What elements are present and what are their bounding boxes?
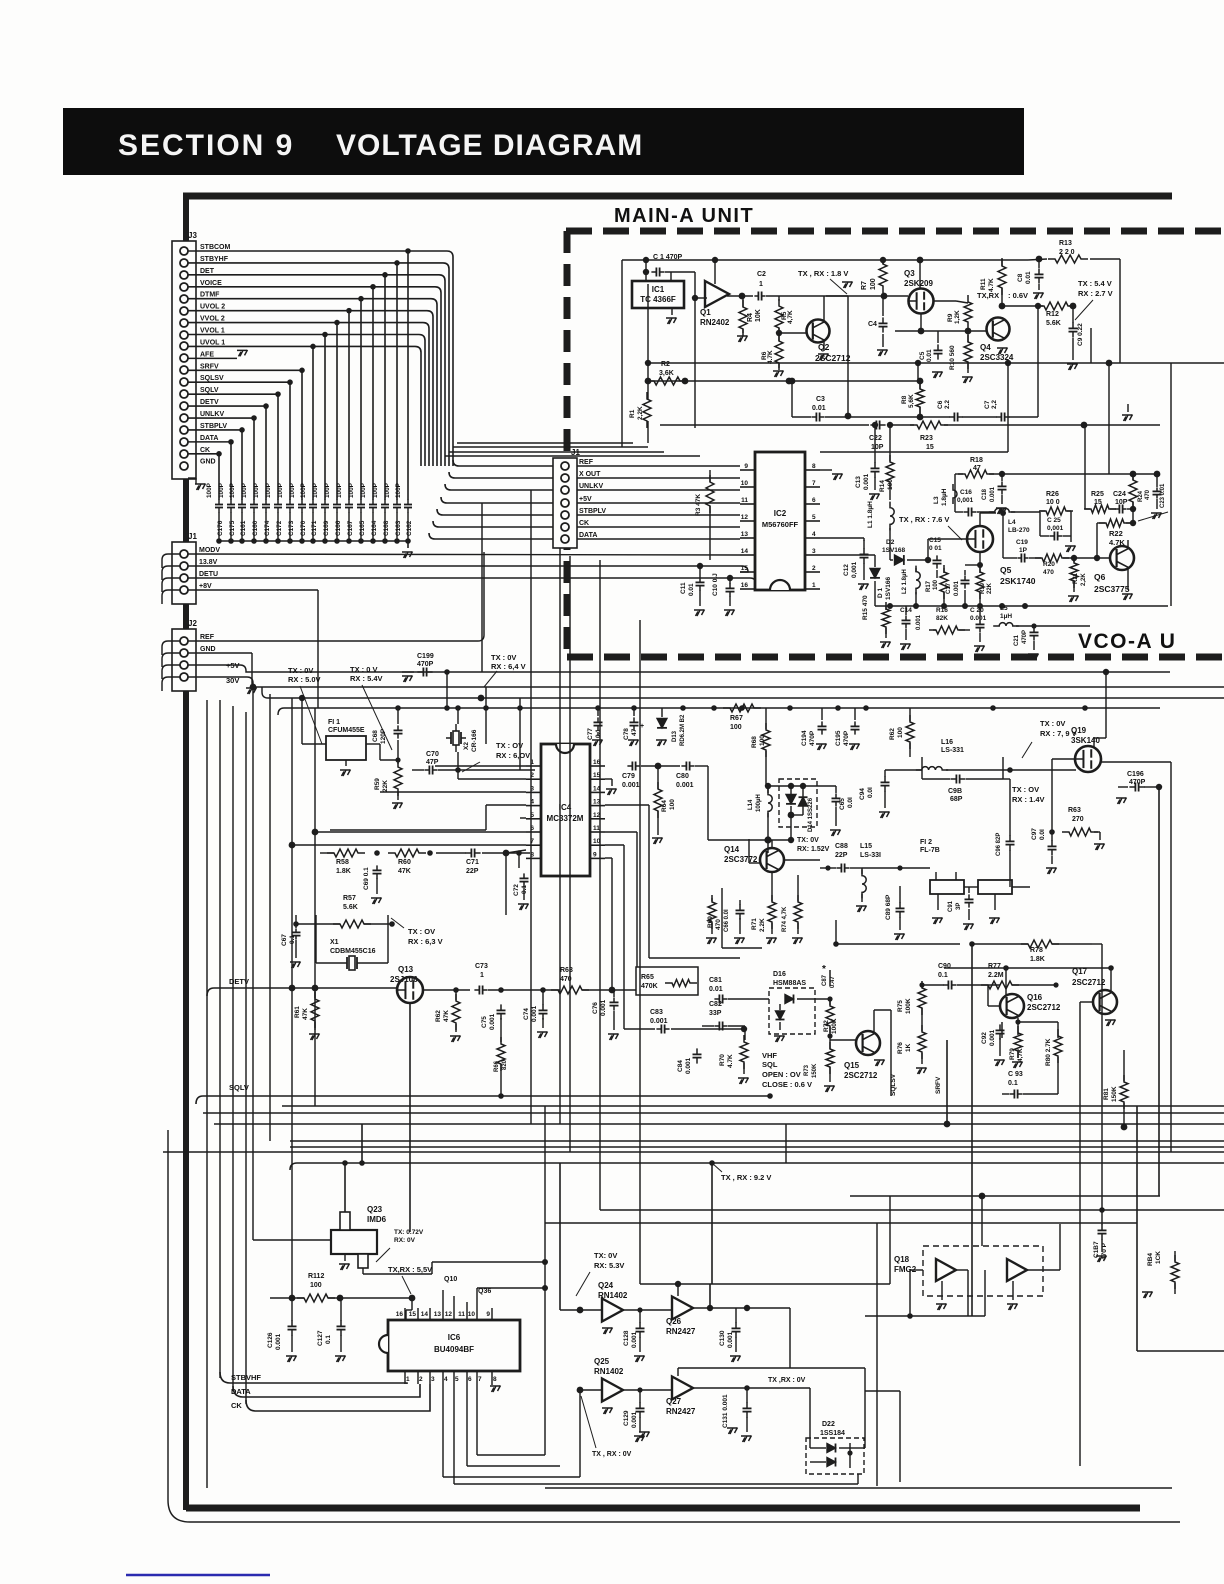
wire J3 SQLSV [188, 381, 290, 383]
J1 pin DATA [561, 535, 569, 543]
svg-text:R81: R81 [1103, 1088, 1110, 1100]
svg-text:SRFV: SRFV [935, 1076, 942, 1094]
svg-text:12: 12 [741, 514, 749, 521]
wire Q14 base row840 [708, 839, 791, 841]
J3 pin VVOL 2 [180, 319, 188, 327]
svg-text:C195: C195 [835, 730, 842, 746]
IC6 pin 12 [453, 1308, 455, 1320]
wire J3 UVOL 1 [188, 345, 415, 347]
wire J3 SQLV [188, 393, 278, 395]
svg-text:R7: R7 [861, 281, 868, 290]
svg-text:100P: 100P [312, 482, 319, 498]
J3 pin DATA [180, 438, 188, 446]
svg-text:2,2: 2,2 [991, 400, 998, 409]
svg-text:GND: GND [200, 646, 216, 653]
svg-text:2SC2712: 2SC2712 [1072, 978, 1106, 987]
svg-text:C90: C90 [938, 963, 951, 970]
J3 pin CK [180, 450, 188, 458]
svg-text:MC3372M: MC3372M [547, 814, 584, 823]
svg-text:7: 7 [812, 480, 816, 487]
J1 pin X OUT [561, 474, 569, 482]
svg-text:DTMF: DTMF [200, 292, 220, 299]
svg-text:2SC2712: 2SC2712 [844, 1071, 878, 1080]
wire mid rail y363 [648, 362, 918, 364]
svg-text:TX: 0V: TX: 0V [594, 1251, 617, 1260]
IC4 pin 1 [526, 765, 541, 767]
svg-text:4.7K: 4.7K [1109, 538, 1125, 547]
svg-text:SQLV: SQLV [229, 1083, 249, 1092]
IC6 pin 5 [453, 1371, 455, 1384]
svg-text:C16: C16 [960, 489, 972, 496]
J3 pin SRFV [180, 366, 188, 374]
svg-text:470P: 470P [809, 730, 816, 746]
svg-text:C68: C68 [372, 730, 379, 742]
wire R14 top to trunk [889, 425, 891, 452]
svg-text:Q19: Q19 [1071, 726, 1087, 735]
J3 pin DETV [180, 402, 188, 410]
svg-text:C176: C176 [217, 520, 224, 536]
bus lines bottom of IF [282, 1105, 1224, 1107]
svg-text:BU4094BF: BU4094BF [434, 1345, 474, 1354]
svg-text:RX : 2.7 V: RX : 2.7 V [1078, 289, 1113, 298]
J3 pin SQLSV [180, 378, 188, 386]
svg-text:47K: 47K [443, 1010, 450, 1022]
inductor L4 LB-270 [989, 508, 1015, 512]
wire J3 DETV [188, 405, 266, 407]
wire 30V rail [188, 677, 1224, 687]
wire bundle J3 to J1 [453, 460, 553, 466]
J3 pin GND [180, 462, 188, 470]
svg-text:R10 560: R10 560 [949, 345, 956, 370]
svg-text:C8: C8 [1017, 273, 1024, 282]
svg-text:2SK209: 2SK209 [904, 279, 933, 288]
IC4 pin 15 [590, 778, 605, 780]
svg-text:VVOL 1: VVOL 1 [200, 328, 225, 335]
svg-text:TX ,RX : 0V: TX ,RX : 0V [768, 1377, 806, 1384]
IC2 pin 6 [805, 503, 820, 505]
wire J3 DATA [188, 441, 231, 443]
wire row y452 [820, 451, 1008, 453]
svg-text:Q15: Q15 [844, 1061, 860, 1070]
buffer Q25 RN1402 [602, 1379, 623, 1402]
svg-text:470K: 470K [641, 983, 658, 990]
svg-text:470: 470 [1145, 489, 1151, 500]
svg-text:C15: C15 [929, 537, 941, 544]
svg-text:R65: R65 [641, 974, 654, 981]
IC2 pin 16 [740, 588, 755, 590]
svg-text:0.001: 0.001 [916, 614, 922, 630]
svg-text:C161: C161 [240, 520, 247, 536]
svg-text:15: 15 [741, 565, 749, 572]
svg-text:0.01: 0.01 [812, 405, 826, 412]
svg-text:R61: R61 [294, 1006, 301, 1018]
svg-text:CK: CK [579, 520, 589, 527]
wire IC4 pin7 [292, 844, 526, 846]
svg-text:DETV: DETV [200, 399, 219, 406]
svg-text:LS-331: LS-331 [941, 747, 964, 754]
svg-text:M56760FF: M56760FF [762, 520, 799, 529]
diode D14 1SS226 dashed box [779, 779, 817, 827]
IC6 pin 10 [476, 1308, 478, 1320]
svg-text:DATA: DATA [579, 532, 597, 539]
svg-text:470: 470 [1043, 569, 1054, 576]
svg-text:REF: REF [579, 459, 594, 466]
ground J3 GND [188, 477, 196, 479]
svg-text:R8: R8 [901, 395, 908, 404]
svg-text:C174: C174 [264, 520, 271, 536]
svg-text:C167: C167 [347, 520, 354, 536]
wire IC4 pin9 run [605, 857, 612, 859]
J3 pin STBCOM [180, 247, 188, 255]
svg-text:0.0I: 0.0I [867, 787, 874, 798]
IC6 pin 11 [466, 1308, 468, 1320]
svg-text:C126: C126 [267, 1332, 274, 1348]
svg-text:1K: 1K [905, 1043, 912, 1052]
connector J1 (IC2 side) [553, 458, 577, 548]
svg-text:MAIN-A UNIT: MAIN-A UNIT [614, 205, 754, 227]
svg-text:10K: 10K [755, 309, 762, 322]
title bar [63, 108, 1024, 175]
svg-text:C78: C78 [623, 728, 630, 740]
svg-text:47K: 47K [398, 868, 411, 875]
svg-text:IC1: IC1 [652, 285, 665, 294]
svg-text:C194: C194 [801, 730, 808, 746]
IC4 pin 6 [526, 831, 541, 833]
svg-text:RN2427: RN2427 [666, 1407, 696, 1416]
svg-text:C196: C196 [1127, 771, 1144, 778]
IC4 pin 9 [590, 857, 605, 859]
svg-text:C175: C175 [229, 520, 236, 536]
IC2 pin 5 [805, 520, 820, 522]
svg-text:100P: 100P [372, 482, 379, 498]
svg-text:C2: C2 [757, 271, 766, 278]
svg-text:TX : 0 V: TX : 0 V [350, 665, 378, 674]
svg-text:3P: 3P [956, 903, 962, 910]
wire vertical x570 [569, 556, 571, 1152]
svg-text:C97: C97 [1031, 828, 1038, 840]
wire top rail y260 [622, 259, 1028, 261]
IC2 pin 2 [805, 571, 820, 573]
wire Q5 drain up [979, 513, 981, 526]
wire R25 feed vertical [1084, 425, 1086, 509]
svg-text:CLOSE : 0.6 V: CLOSE : 0.6 V [762, 1080, 812, 1089]
wire R13 to R12 corner [1090, 258, 1120, 260]
svg-text:C24: C24 [1113, 491, 1126, 498]
IC6 pin 7 [476, 1371, 478, 1384]
svg-text:270: 270 [1072, 816, 1084, 823]
svg-text:2SC3772: 2SC3772 [724, 855, 758, 864]
svg-text:150K: 150K [1111, 1086, 1118, 1102]
svg-text:4: 4 [444, 1376, 448, 1383]
J2 pin GND [180, 649, 188, 657]
svg-text:CFUM455E: CFUM455E [328, 727, 365, 734]
J3 pin VVOL 1 [180, 331, 188, 339]
svg-text:L3: L3 [933, 496, 940, 504]
svg-text:7: 7 [478, 1376, 482, 1383]
svg-text:13: 13 [741, 531, 749, 538]
svg-text:100P: 100P [360, 482, 367, 498]
svg-text:R17: R17 [926, 580, 932, 592]
svg-text:100P: 100P [348, 482, 355, 498]
wire R72 to Q15 base [830, 1039, 856, 1041]
svg-text:RN1402: RN1402 [594, 1367, 624, 1376]
wire x900 vertical to bottom [899, 1391, 901, 1482]
wire Q24 in [560, 1309, 602, 1311]
svg-text:+5V: +5V [579, 496, 592, 503]
svg-text:R62: R62 [435, 1010, 442, 1022]
J1 pin UNLKV [561, 486, 569, 494]
wire Q19 gate left [1052, 758, 1075, 760]
J1 pin MODV [180, 550, 188, 558]
wire C19 feed vertical [1002, 513, 1004, 558]
svg-text:100P: 100P [241, 482, 248, 498]
loop wire pin7 [477, 1454, 545, 1456]
svg-text:1: 1 [406, 1376, 410, 1383]
wires J1 left hooks [162, 554, 180, 568]
J2 pin aux [180, 661, 188, 669]
IC4 MC3372M [541, 744, 590, 876]
svg-text:100P: 100P [384, 482, 391, 498]
wire Q2 collector column x848 [826, 295, 848, 297]
svg-text:C173: C173 [288, 520, 295, 536]
svg-text:RN2402: RN2402 [700, 318, 730, 327]
J3 pin STBPLV [180, 426, 188, 434]
svg-text:0.01: 0.01 [709, 986, 723, 993]
svg-text:C79: C79 [622, 773, 635, 780]
wire Q14 emitter [771, 840, 773, 848]
IC4 pin 13 [590, 805, 605, 807]
wire J3 AFE to ground [188, 357, 237, 359]
svg-text:L15: L15 [860, 843, 872, 850]
capacitor C164 100P [372, 500, 374, 505]
svg-text:C13: C13 [855, 476, 862, 488]
wire J3 VVOL 1 [188, 334, 419, 336]
svg-text:C71: C71 [466, 859, 479, 866]
svg-text:22K: 22K [987, 582, 993, 594]
svg-text:0.001: 0.001 [990, 486, 996, 502]
svg-text:R57: R57 [343, 895, 356, 902]
svg-text:0.01: 0.01 [926, 349, 933, 362]
svg-text:D16: D16 [773, 971, 786, 978]
wire filter chain [862, 867, 930, 869]
svg-text:HSM88AS: HSM88AS [773, 980, 806, 987]
svg-text:R13: R13 [1059, 240, 1072, 247]
svg-text:470P: 470P [417, 661, 434, 668]
svg-text:L5: L5 [1000, 605, 1008, 612]
transistor Q15 2SC2712 [856, 1031, 880, 1055]
svg-text:0.0I: 0.0I [1039, 829, 1046, 840]
svg-text:L14: L14 [748, 799, 754, 810]
wire x890 vertical [889, 1196, 891, 1284]
VCO-A unit dashed box top [567, 654, 1224, 661]
svg-text:R2: R2 [661, 361, 670, 368]
svg-text:C131 0.001: C131 0.001 [722, 1394, 729, 1428]
capacitor C163 100P [396, 500, 398, 505]
wire right edge corner x1172 [1170, 363, 1172, 606]
bottom rail y606 [875, 605, 1168, 607]
svg-text:C66 0.0I: C66 0.0I [724, 909, 730, 932]
svg-text:0.001: 0.001 [676, 782, 694, 789]
svg-text:C81: C81 [709, 977, 722, 984]
IC6 pin 6 [466, 1371, 468, 1384]
wire J3 UVOL 2 [188, 310, 427, 312]
svg-text:Q5: Q5 [1000, 565, 1012, 575]
svg-text:DATA: DATA [200, 435, 218, 442]
wire J2 REF [188, 552, 484, 641]
svg-text:0.001: 0.001 [631, 1331, 638, 1348]
IC6 pin 8 [491, 1371, 493, 1384]
svg-text:C87: C87 [822, 974, 828, 986]
IC2 pin 4 [805, 537, 820, 539]
svg-text:DETU: DETU [199, 571, 218, 578]
svg-text:0.001: 0.001 [531, 1005, 538, 1022]
svg-text:C5: C5 [919, 351, 926, 360]
svg-text:C72: C72 [513, 884, 520, 896]
wire vertical x531 [530, 490, 532, 1124]
wire J3 DET [188, 274, 439, 276]
wire Q23 region [253, 1239, 331, 1241]
svg-text:33P: 33P [709, 1010, 722, 1017]
resistor R6 47K [775, 334, 783, 370]
svg-text:DETV: DETV [229, 977, 249, 986]
svg-text:100P: 100P [265, 482, 272, 498]
IC2 pin 11 [740, 503, 755, 505]
svg-text:100: 100 [897, 727, 904, 738]
svg-text:R78: R78 [1030, 947, 1043, 954]
svg-text:GND: GND [200, 459, 216, 466]
svg-text:STBCOM: STBCOM [200, 244, 231, 251]
capacitor C168 100P [384, 500, 386, 505]
J3 pin DET [180, 271, 188, 279]
svg-text:C199: C199 [417, 653, 434, 660]
svg-text:470P: 470P [1022, 630, 1028, 644]
J2 pin aux [180, 673, 188, 681]
svg-text:1: 1 [759, 281, 763, 288]
svg-text:470: 470 [715, 919, 722, 930]
svg-text:CK: CK [231, 1401, 242, 1410]
wire J3 CK [188, 453, 219, 455]
main frame left border [183, 196, 189, 1510]
IC6 pin 16 [404, 1308, 406, 1320]
svg-text:470P: 470P [843, 730, 850, 746]
J3 pin VOICE [180, 283, 188, 291]
svg-text:R73: R73 [804, 1064, 810, 1076]
IC6 pin 2 [417, 1371, 419, 1384]
svg-text:8: 8 [493, 1376, 497, 1383]
wire +5V rail [187, 664, 189, 666]
loop wire pin6 [467, 1465, 560, 1467]
svg-text:SRFV: SRFV [200, 363, 219, 370]
svg-text:MODV: MODV [199, 547, 220, 554]
svg-text:100P: 100P [253, 482, 260, 498]
MAIN-A unit dashed box left [564, 231, 571, 655]
svg-text:R63: R63 [560, 967, 573, 974]
IC2 pin 9 [740, 469, 755, 471]
J3 pin STBYHF [180, 259, 188, 267]
wires J1 to IC2 [577, 465, 740, 467]
transistor Q6 2SC3775 [1110, 546, 1134, 570]
svg-text:11: 11 [593, 825, 600, 832]
svg-text:100P: 100P [336, 482, 343, 498]
svg-text:TX , RX : 9.2 V: TX , RX : 9.2 V [721, 1173, 771, 1182]
svg-text:X OUT: X OUT [579, 471, 601, 478]
svg-text:VOLTAGE DIAGRAM: VOLTAGE DIAGRAM [336, 129, 643, 162]
wire IC2 pin4 to C12 [820, 537, 864, 539]
svg-text:100: 100 [669, 799, 676, 810]
svg-text:1P: 1P [1019, 547, 1028, 554]
svg-text:1CK: 1CK [1155, 1251, 1162, 1264]
buffer Q18a [936, 1259, 956, 1281]
buffer Q18b [1007, 1259, 1027, 1281]
IC2 pin 7 [805, 486, 820, 488]
wire MODV [188, 554, 740, 555]
wire IC4 pin8 to C71 [506, 850, 526, 853]
wire Q18 node bottom [865, 1315, 985, 1317]
svg-text:100P: 100P [324, 482, 331, 498]
svg-text:150K: 150K [812, 1063, 818, 1078]
svg-text:100P: 100P [229, 482, 236, 498]
svg-text:120P: 120P [380, 728, 387, 744]
IC ICT TC4366F (IC1) [632, 281, 684, 308]
wire IC2 pin8 ground [820, 469, 832, 471]
svg-text:VVOL 2: VVOL 2 [200, 316, 225, 323]
svg-text:3: 3 [431, 1376, 435, 1383]
resistor R65 470K box [636, 967, 698, 995]
transistor Q16 2SC2712 [1000, 994, 1024, 1018]
bus junction dots [944, 1121, 951, 1128]
svg-text:0.001: 0.001 [631, 1411, 638, 1428]
svg-text:2,2K: 2,2K [1081, 573, 1087, 586]
capacitor C166 100P [336, 500, 338, 505]
IC4 pin 5 [526, 818, 541, 820]
outer frame thin border [168, 1130, 1180, 1522]
svg-text:C6: C6 [937, 400, 944, 409]
svg-text:C74: C74 [523, 1008, 530, 1020]
svg-text:1.8K: 1.8K [1030, 956, 1045, 963]
blue underline bottom left [126, 1574, 270, 1577]
wire IC4 pin1 [435, 765, 526, 767]
wire IC4 pin13 long run [605, 804, 649, 806]
svg-text:2,2K: 2,2K [637, 406, 644, 420]
svg-text:1: 1 [480, 972, 484, 979]
svg-text:13.8V: 13.8V [199, 559, 218, 566]
svg-text:6: 6 [468, 1376, 472, 1383]
capacitor C170 100P [301, 500, 303, 505]
wire D14 node row786 [766, 785, 836, 787]
svg-text:100P: 100P [206, 482, 213, 498]
svg-text:1SV166: 1SV166 [885, 576, 892, 600]
svg-text:Q4: Q4 [980, 343, 991, 352]
svg-text:C73: C73 [475, 963, 488, 970]
svg-text:C129: C129 [623, 1410, 630, 1426]
svg-text:C96 82P: C96 82P [996, 833, 1002, 856]
label pointer 5.4V [1075, 300, 1093, 320]
svg-text:22P: 22P [835, 852, 848, 859]
wire Q18a out down [967, 1270, 969, 1316]
IC2 pin 1 [805, 588, 820, 590]
wire trunk y417 C3 row [902, 416, 950, 418]
wire J3 UNLKV [188, 417, 254, 419]
svg-text:0 01: 0 01 [929, 545, 942, 552]
svg-text:UNLKV: UNLKV [579, 483, 603, 490]
svg-text:R75: R75 [897, 1000, 904, 1012]
svg-text:UVOL 1: UVOL 1 [200, 339, 225, 346]
svg-text:100P: 100P [300, 482, 307, 498]
svg-text:C160: C160 [252, 520, 259, 536]
svg-text:0.001: 0.001 [489, 1013, 496, 1030]
J1 pin 13.8V [180, 562, 188, 570]
wire right verticals upper [1090, 328, 1092, 363]
